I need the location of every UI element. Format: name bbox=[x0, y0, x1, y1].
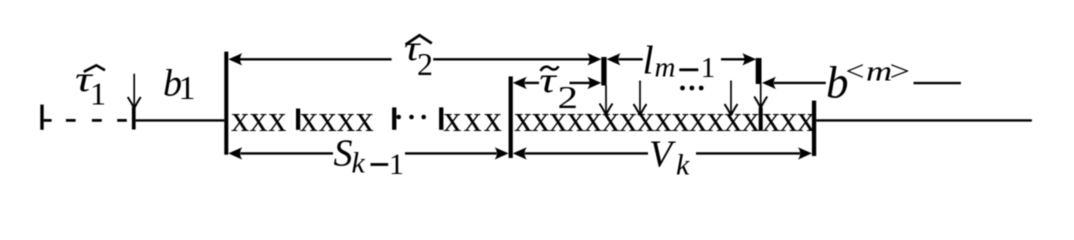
bracket middle (big vertical) bbox=[509, 76, 513, 158]
svg-text:S: S bbox=[334, 133, 353, 175]
small down arrow 3 bbox=[725, 81, 738, 116]
tick in row2 bbox=[759, 108, 763, 131]
svg-text:xxxxxxxxxxxxxx: xxxxxxxxxxxxxx bbox=[514, 98, 760, 139]
svg-text:l: l bbox=[643, 38, 654, 83]
label S_{k-1} bbox=[334, 133, 405, 182]
step bar A bbox=[601, 57, 606, 86]
svg-text:V: V bbox=[649, 134, 676, 176]
svg-text:m: m bbox=[866, 56, 892, 88]
b^<m> arrow with left arrowhead at bar B bbox=[762, 77, 826, 89]
end bar bbox=[812, 101, 816, 156]
label tau-tilde-2 bbox=[539, 60, 578, 115]
tick bbox=[296, 109, 300, 130]
bracket left S (big vertical) bbox=[224, 52, 228, 155]
S_{k-1} arrow left part with left arrowhead at bracket bbox=[228, 147, 333, 159]
svg-text:xxx: xxx bbox=[231, 98, 287, 139]
tau-tilde-2 arrow right part into step bar A bbox=[570, 77, 602, 89]
svg-text:2: 2 bbox=[417, 46, 433, 82]
small down arrow 2 bbox=[634, 81, 647, 116]
svg-text:τ: τ bbox=[539, 60, 558, 100]
tick start bbox=[40, 105, 43, 130]
svg-text:>: > bbox=[890, 56, 911, 87]
svg-text:1: 1 bbox=[701, 52, 716, 84]
label V_k bbox=[649, 134, 690, 182]
down arrow at tau1 bbox=[128, 74, 141, 109]
label b1 bbox=[163, 63, 196, 108]
cdots upper bbox=[680, 86, 704, 91]
tick bbox=[439, 107, 443, 129]
tau-hat-2 arrow line left part with left arrowhead bbox=[228, 53, 391, 65]
label l_{m-1} bbox=[643, 38, 716, 84]
label tau-hat-1 bbox=[75, 60, 106, 112]
b^<m> trailing line bbox=[914, 82, 961, 84]
down arrow from bar B bbox=[754, 84, 767, 108]
svg-text:xxx: xxx bbox=[443, 98, 503, 139]
down arrow from bar A bbox=[600, 86, 613, 116]
svg-text:1: 1 bbox=[179, 70, 196, 107]
svg-text:1: 1 bbox=[389, 148, 404, 181]
svg-text:k: k bbox=[352, 147, 366, 180]
tau-tilde-2 arrow left part bbox=[513, 77, 539, 89]
tau-hat-2 arrow line right part with right arrowhead into step bar A bbox=[433, 53, 601, 65]
label b^<m> bbox=[826, 55, 910, 107]
V_k arrow left part with left arrowhead at middle bracket bbox=[513, 147, 648, 159]
label tau-hat-2 bbox=[404, 29, 433, 82]
cdots row1 bbox=[396, 115, 426, 120]
S_{k-1} arrow right part with right arrowhead at middle bracket bbox=[405, 147, 509, 159]
tick bbox=[392, 107, 396, 129]
wire right tail bbox=[816, 119, 1032, 121]
wire dashed tau1 interval bbox=[44, 119, 127, 122]
svg-text:m: m bbox=[655, 52, 676, 84]
svg-text:k: k bbox=[676, 149, 690, 182]
svg-text:1: 1 bbox=[90, 76, 106, 112]
tick b1 start bbox=[132, 107, 136, 129]
wire b1 segment bbox=[136, 119, 225, 121]
svg-text:xxx: xxx bbox=[762, 98, 815, 139]
l_{m-1} arrow left part with left arrowhead bbox=[607, 53, 643, 65]
step bar B bbox=[756, 58, 762, 84]
svg-text:<: < bbox=[846, 55, 865, 87]
V_k arrow right part with right arrowhead at end bar bbox=[696, 147, 812, 159]
l_{m-1} arrow right part with right arrowhead into step bar B bbox=[721, 53, 756, 65]
